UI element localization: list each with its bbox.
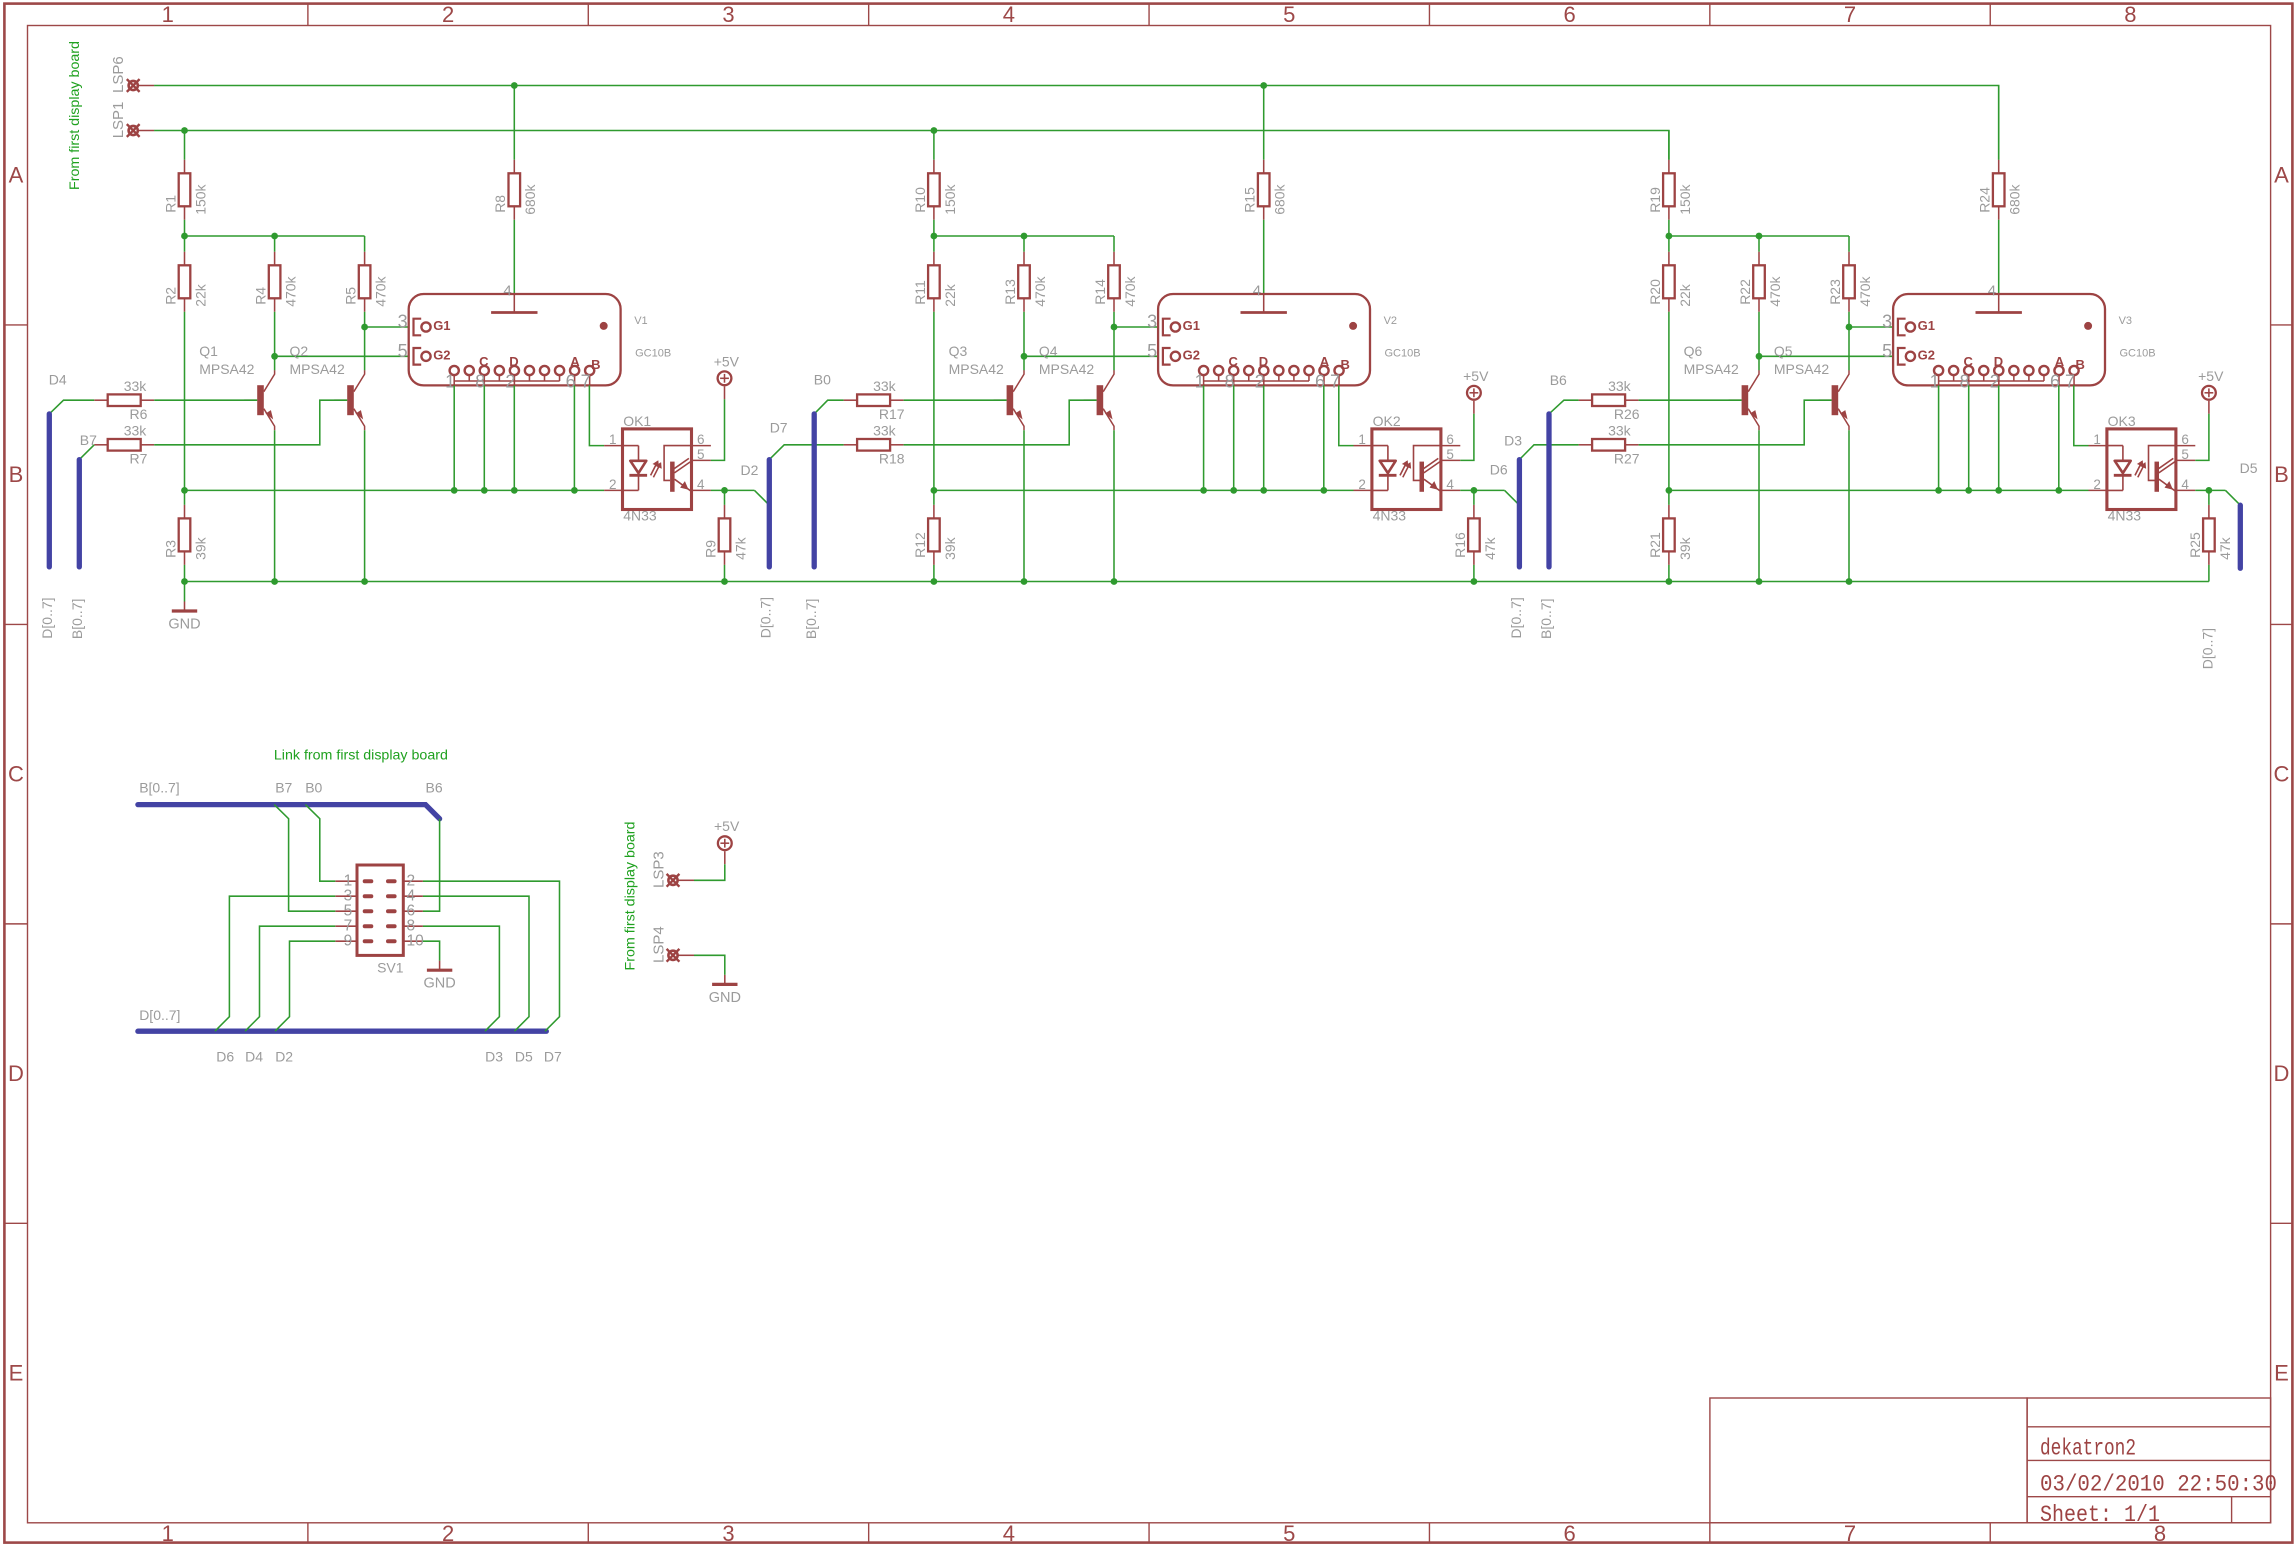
wire R24 column xyxy=(1998,86,2000,160)
svg-text:470k: 470k xyxy=(373,275,389,306)
wire sv1 pin10 to ground xyxy=(423,941,440,961)
connector SV1 xyxy=(335,865,424,975)
resistor R23 470k xyxy=(1827,252,1873,312)
wire net D7 sv1 pin2 xyxy=(423,881,560,1031)
svg-text:39k: 39k xyxy=(1677,536,1693,560)
wire G1 xyxy=(365,326,409,328)
wire R10 column xyxy=(933,131,935,160)
resistor R19 150k xyxy=(1647,160,1693,220)
wire optocoupler pin4 node xyxy=(2195,489,2225,491)
wire tube pin A drop xyxy=(573,385,575,490)
wire tube pin C drop xyxy=(483,385,485,490)
svg-text:B6: B6 xyxy=(426,779,443,795)
wire R12 to bottom rail xyxy=(933,565,935,582)
wire tube pin K drop xyxy=(1938,385,1940,490)
svg-text:D2: D2 xyxy=(275,1049,293,1065)
wire rail to r2 xyxy=(1668,236,1670,252)
junction G2 node xyxy=(271,353,278,360)
wire tube pin D drop xyxy=(1263,385,1265,490)
svg-text:150k: 150k xyxy=(192,183,208,214)
wire tube pin B to optocoupler pin1 xyxy=(1339,385,1354,445)
svg-text:150k: 150k xyxy=(1677,183,1693,214)
junction pin A xyxy=(571,487,578,494)
svg-text:Sheet: 1/1: Sheet: 1/1 xyxy=(2040,1502,2160,1528)
svg-text:D[0..7]: D[0..7] xyxy=(139,1007,180,1023)
wire tube pin A drop xyxy=(2058,385,2060,490)
svg-text:R10: R10 xyxy=(912,187,928,213)
junction pin C xyxy=(1230,487,1237,494)
wire tube pin D drop xyxy=(513,385,515,490)
svg-text:39k: 39k xyxy=(192,536,208,560)
junction bottom rail r9 xyxy=(1471,578,1478,585)
svg-text:Q2: Q2 xyxy=(290,343,309,359)
wire G1 xyxy=(1114,326,1158,328)
svg-text:4N33: 4N33 xyxy=(1373,508,1407,524)
wire pin4 to r9 xyxy=(724,490,726,505)
svg-text:470k: 470k xyxy=(1857,275,1873,306)
wire G2 xyxy=(275,355,409,357)
svg-text:D6: D6 xyxy=(1490,462,1508,478)
wire net D3 sv1 pin8 xyxy=(423,926,500,1031)
junction LSP6/R15 xyxy=(1260,82,1267,89)
svg-text:R6: R6 xyxy=(130,406,148,422)
resistor R1 150k xyxy=(162,160,208,220)
svg-text:OK1: OK1 xyxy=(623,413,651,429)
junction bottom rail B xyxy=(271,578,278,585)
wire net B7 bus entry xyxy=(79,445,94,460)
svg-text:GC10B: GC10B xyxy=(1385,348,1421,360)
svg-text:OK2: OK2 xyxy=(1373,413,1401,429)
wire r1 to rail xyxy=(933,220,935,236)
wire net D6 sv1 pin3 xyxy=(215,896,335,1031)
svg-text:9: 9 xyxy=(344,933,353,950)
svg-text:470k: 470k xyxy=(1032,275,1048,306)
junction pin4 node xyxy=(2206,487,2213,494)
svg-text:R3: R3 xyxy=(162,540,178,558)
svg-text:R9: R9 xyxy=(702,540,718,558)
resistor R4 470k xyxy=(253,252,299,312)
wire G2 xyxy=(1024,355,1158,357)
svg-text:22k: 22k xyxy=(942,283,958,307)
svg-text:1: 1 xyxy=(162,2,174,27)
transistor Q5 MPSA42 xyxy=(1774,343,1849,430)
junction bottom rail A xyxy=(931,578,938,585)
svg-text:V1: V1 xyxy=(634,315,647,327)
resistor R26 33k xyxy=(1579,378,1640,422)
bus B[0..7] sv1 horizontal xyxy=(138,805,440,819)
svg-text:R21: R21 xyxy=(1647,532,1663,558)
junction rail A xyxy=(931,233,938,240)
svg-text:R19: R19 xyxy=(1647,187,1663,213)
svg-text:470k: 470k xyxy=(1122,275,1138,306)
wire tube pin B to optocoupler pin1 xyxy=(2074,385,2089,445)
svg-text:LSP1: LSP1 xyxy=(110,102,127,139)
wire R8 column xyxy=(513,86,515,160)
wire rail to r2 xyxy=(933,236,935,252)
svg-text:4: 4 xyxy=(1003,1521,1015,1545)
svg-text:D5: D5 xyxy=(515,1049,533,1065)
svg-text:33k: 33k xyxy=(124,378,148,394)
wire R17 to Q3 base xyxy=(904,399,1007,401)
wire R7 to Q2 base xyxy=(154,400,347,445)
wire net B6 bus entry xyxy=(1549,400,1579,414)
wire divider rail xyxy=(1669,235,1849,237)
transistor Q4 MPSA42 xyxy=(1039,343,1114,430)
wire rail to r4 xyxy=(1023,236,1025,252)
svg-text:V3: V3 xyxy=(2119,315,2132,327)
svg-text:B7: B7 xyxy=(80,432,97,448)
power +5V xyxy=(714,353,740,399)
wire R20 down xyxy=(1668,312,1670,505)
solder pad LSP3 xyxy=(667,874,694,887)
wire optocoupler pin4 node xyxy=(1460,489,1504,491)
wire R6 to Q1 base xyxy=(154,399,257,401)
svg-text:7: 7 xyxy=(1844,2,1856,27)
svg-text:R7: R7 xyxy=(130,451,148,467)
power +5V xyxy=(2198,368,2224,414)
svg-text:D4: D4 xyxy=(49,371,67,387)
svg-text:B: B xyxy=(2274,462,2289,487)
wire pin4 to r9 xyxy=(2208,490,2210,505)
wire net B0 sv1 pin1 xyxy=(305,805,335,882)
svg-text:D3: D3 xyxy=(485,1049,503,1065)
bus B[0..7] block1 left xyxy=(77,460,82,567)
svg-text:From first display board: From first display board xyxy=(66,41,82,190)
optocoupler OK2 4N33 xyxy=(1354,413,1461,523)
svg-text:B0: B0 xyxy=(305,779,322,795)
junction G2 node xyxy=(1756,353,1763,360)
svg-text:D7: D7 xyxy=(770,420,788,436)
svg-text:D[0..7]: D[0..7] xyxy=(758,597,774,638)
svg-text:D3: D3 xyxy=(1504,432,1522,448)
bus D[0..7] right xyxy=(2238,505,2243,568)
bus D[0..7] mid pair 1 xyxy=(767,460,772,567)
wire rail to r5 xyxy=(364,236,366,252)
resistor R16 47k xyxy=(1452,505,1498,565)
svg-text:MPSA42: MPSA42 xyxy=(949,361,1004,377)
svg-text:3: 3 xyxy=(722,2,734,27)
svg-text:R26: R26 xyxy=(1614,406,1640,422)
junction pin K xyxy=(451,487,458,494)
svg-text:5: 5 xyxy=(1283,2,1295,27)
wire R18 to Q4 base xyxy=(904,400,1097,445)
junction base net xyxy=(1666,487,1673,494)
wire r1 to rail xyxy=(1668,220,1670,236)
wire net D4 bus entry xyxy=(49,400,94,414)
resistor R20 22k xyxy=(1647,252,1693,312)
svg-text:150k: 150k xyxy=(942,183,958,214)
wire net B0 bus entry xyxy=(814,400,843,414)
svg-text:R11: R11 xyxy=(912,280,928,305)
junction bottom rail A xyxy=(1666,578,1673,585)
transistor Q3 MPSA42 xyxy=(949,343,1024,430)
resistor R12 39k xyxy=(912,505,958,565)
svg-text:B7: B7 xyxy=(275,779,292,795)
wire r1 to rail xyxy=(184,220,186,236)
svg-text:R8: R8 xyxy=(492,195,508,213)
junction base net xyxy=(931,487,938,494)
wire net B6 sv1 pin6 xyxy=(423,819,440,912)
svg-text:47k: 47k xyxy=(732,536,748,560)
wire rail to r2 xyxy=(184,236,186,252)
junction rail B xyxy=(271,233,278,240)
wire R26 to Q6 base xyxy=(1639,399,1742,401)
wire tube pin C drop xyxy=(1233,385,1235,490)
svg-text:R20: R20 xyxy=(1647,279,1663,305)
wire +5V to optocoupler pin5 xyxy=(711,399,725,460)
wire LSP3 to +5V xyxy=(694,864,725,880)
svg-text:A: A xyxy=(2274,163,2289,188)
resistor R25 47k xyxy=(2187,505,2233,565)
wire R11 down xyxy=(933,312,935,505)
solder pad LSP4 xyxy=(667,949,694,962)
svg-text:B0: B0 xyxy=(814,371,831,387)
svg-text:R14: R14 xyxy=(1092,279,1108,305)
wire divider rail xyxy=(934,235,1114,237)
transistor Q6 MPSA42 xyxy=(1684,343,1759,430)
bus D[0..7] mid pair 2 xyxy=(1517,460,1522,567)
junction rail A xyxy=(181,233,188,240)
svg-text:C: C xyxy=(2274,762,2290,787)
svg-text:D5: D5 xyxy=(2240,460,2258,476)
wire q1 emitter to bottom rail xyxy=(1023,430,1025,581)
wire r3 rail to ground xyxy=(184,582,186,602)
wire q1 emitter to bottom rail xyxy=(1758,430,1760,581)
wire net D7 bus entry xyxy=(769,445,843,460)
wire tube pin C drop xyxy=(1968,385,1970,490)
wire R1 column xyxy=(184,131,186,160)
resistor R27 33k xyxy=(1579,423,1640,467)
junction pin4 node xyxy=(721,487,728,494)
svg-text:LSP6: LSP6 xyxy=(110,56,127,93)
junction pin A xyxy=(1320,487,1327,494)
svg-text:R25: R25 xyxy=(2187,532,2203,558)
svg-text:R12: R12 xyxy=(912,532,928,558)
wire rail to r4 xyxy=(274,236,276,252)
ground GND lsp4 xyxy=(709,975,741,1006)
wire R15 to tube anode xyxy=(1263,220,1265,294)
svg-text:R15: R15 xyxy=(1242,187,1258,213)
svg-text:4N33: 4N33 xyxy=(623,508,657,524)
svg-text:3: 3 xyxy=(722,1521,734,1545)
ground GND block1 xyxy=(168,602,200,633)
svg-text:R1: R1 xyxy=(162,195,178,213)
svg-text:R18: R18 xyxy=(879,451,905,467)
svg-text:GC10B: GC10B xyxy=(2120,348,2156,360)
resistor R9 47k xyxy=(702,505,748,565)
wire tube pin D drop xyxy=(1998,385,2000,490)
junction pin D xyxy=(1260,487,1267,494)
svg-text:33k: 33k xyxy=(124,423,148,439)
svg-text:680k: 680k xyxy=(2007,183,2023,214)
svg-text:OK3: OK3 xyxy=(2108,413,2136,429)
svg-text:Q5: Q5 xyxy=(1774,343,1793,359)
wire optocoupler pin4 node xyxy=(711,489,755,491)
resistor R13 470k xyxy=(1002,252,1048,312)
junction rail B xyxy=(1756,233,1763,240)
optocoupler OK3 4N33 xyxy=(2089,413,2196,523)
junction rail B xyxy=(1021,233,1028,240)
junction G1 node xyxy=(361,324,368,331)
junction pin C xyxy=(1965,487,1972,494)
svg-text:B[0..7]: B[0..7] xyxy=(139,779,179,795)
wire R23 to G1 node xyxy=(1848,312,1850,371)
svg-text:B: B xyxy=(9,462,24,487)
wire R22 to G2 node xyxy=(1758,312,1760,371)
svg-text:E: E xyxy=(2274,1361,2289,1386)
svg-text:4: 4 xyxy=(1003,2,1015,27)
svg-text:Q4: Q4 xyxy=(1039,343,1058,359)
junction G1 node xyxy=(1846,324,1853,331)
wire R24 to tube anode xyxy=(1998,220,2000,294)
wire R14 to G1 node xyxy=(1113,312,1115,371)
wire +5V to optocoupler pin5 xyxy=(2195,414,2209,461)
svg-text:B[0..7]: B[0..7] xyxy=(1538,599,1554,639)
junction pin A xyxy=(2055,487,2062,494)
wire net D3 bus entry xyxy=(1519,445,1578,460)
junction bottom rail C xyxy=(361,578,368,585)
svg-text:D: D xyxy=(2274,1061,2290,1086)
junction LSP1/R1 xyxy=(181,127,188,134)
wire G1 xyxy=(1849,326,1893,328)
wire q2 emitter to bottom rail xyxy=(1113,430,1115,581)
svg-text:SV1: SV1 xyxy=(377,959,404,975)
svg-text:E: E xyxy=(9,1361,24,1386)
wire R5 to G1 node xyxy=(364,312,366,371)
wire net D5 sv1 pin4 xyxy=(423,896,529,1031)
junction pin K xyxy=(1200,487,1207,494)
svg-text:R5: R5 xyxy=(343,287,359,305)
svg-text:03/02/2010 22:50:30: 03/02/2010 22:50:30 xyxy=(2040,1472,2277,1498)
svg-text:33k: 33k xyxy=(1608,378,1632,394)
junction bottom rail B xyxy=(1021,578,1028,585)
svg-text:A: A xyxy=(9,163,24,188)
junction bottom rail A xyxy=(181,578,188,585)
svg-text:680k: 680k xyxy=(1272,183,1288,214)
svg-text:R24: R24 xyxy=(1977,187,1993,213)
optocoupler OK1 4N33 xyxy=(604,413,711,523)
wire net B7 sv1 pin5 xyxy=(274,805,335,912)
resistor R21 39k xyxy=(1647,505,1693,565)
wire q1 emitter to bottom rail xyxy=(274,430,276,581)
junction pin4 node xyxy=(1471,487,1478,494)
junction bottom rail r9 xyxy=(721,578,728,585)
svg-text:dekatron2: dekatron2 xyxy=(2040,1436,2136,1462)
svg-text:7: 7 xyxy=(1844,1521,1856,1545)
dekatron tube V1 GC10B xyxy=(398,282,671,391)
transistor Q2 MPSA42 xyxy=(290,343,365,430)
svg-text:6: 6 xyxy=(1564,1521,1576,1545)
dekatron tube V3 GC10B xyxy=(1882,282,2155,391)
wire rail to r4 xyxy=(1758,236,1760,252)
svg-text:MPSA42: MPSA42 xyxy=(1039,361,1094,377)
wire R4 to G2 node xyxy=(274,312,276,371)
svg-text:47k: 47k xyxy=(2217,536,2233,560)
svg-text:Q6: Q6 xyxy=(1684,343,1703,359)
resistor R7 33k xyxy=(94,423,154,467)
wire tube pin B to optocoupler pin1 xyxy=(589,385,604,445)
wire R27 to Q5 base xyxy=(1639,400,1832,445)
svg-text:MPSA42: MPSA42 xyxy=(1774,361,1829,377)
svg-text:33k: 33k xyxy=(873,378,897,394)
junction pin C xyxy=(481,487,488,494)
resistor R18 33k xyxy=(844,423,905,467)
svg-text:39k: 39k xyxy=(942,536,958,560)
wire net D2 sv1 pin9 xyxy=(275,941,335,1031)
solder pad LSP6 xyxy=(127,79,154,92)
svg-text:R22: R22 xyxy=(1737,279,1753,305)
svg-text:R4: R4 xyxy=(253,287,269,305)
wire pin4 to r9 xyxy=(1473,490,1475,505)
wire G2 xyxy=(1759,355,1893,357)
svg-text:R17: R17 xyxy=(879,406,905,422)
svg-text:2: 2 xyxy=(442,1521,454,1545)
svg-text:470k: 470k xyxy=(1767,275,1783,306)
wire q2 emitter to bottom rail xyxy=(364,430,366,581)
wire net LSP6 (anode supply) xyxy=(154,86,1999,160)
svg-text:R16: R16 xyxy=(1452,532,1468,558)
svg-text:LSP4: LSP4 xyxy=(650,926,667,963)
svg-text:D[0..7]: D[0..7] xyxy=(2200,628,2216,669)
svg-text:5: 5 xyxy=(1283,1521,1295,1545)
svg-text:LSP3: LSP3 xyxy=(650,851,667,888)
svg-text:D[0..7]: D[0..7] xyxy=(39,597,55,638)
junction G2 node xyxy=(1021,353,1028,360)
svg-text:MPSA42: MPSA42 xyxy=(199,361,254,377)
wire bottom ground rail xyxy=(185,581,2209,583)
svg-text:D4: D4 xyxy=(245,1049,263,1065)
wire q2 emitter to bottom rail xyxy=(1848,430,1850,581)
svg-text:2: 2 xyxy=(442,2,454,27)
svg-text:D2: D2 xyxy=(741,462,759,478)
junction LSP6/R8 xyxy=(511,82,518,89)
svg-text:6: 6 xyxy=(1564,2,1576,27)
svg-text:Link from first display board: Link from first display board xyxy=(274,746,448,762)
svg-text:B6: B6 xyxy=(1550,372,1567,388)
svg-text:680k: 680k xyxy=(522,183,538,214)
wire rail to r5 xyxy=(1848,236,1850,252)
wire R15 column xyxy=(1263,86,1265,160)
svg-text:R27: R27 xyxy=(1614,451,1640,467)
junction pin D xyxy=(511,487,518,494)
svg-text:R2: R2 xyxy=(162,287,178,305)
title block xyxy=(1710,1398,2271,1523)
transistor Q1 MPSA42 xyxy=(199,343,274,430)
svg-text:GC10B: GC10B xyxy=(635,348,671,360)
resistor R8 680k xyxy=(492,160,538,220)
junction bottom rail C xyxy=(1111,578,1118,585)
svg-text:From first display board: From first display board xyxy=(621,822,637,971)
wire cathode common to optocoupler pin2 xyxy=(185,489,605,491)
solder pad LSP1 xyxy=(127,124,154,137)
power +5V xyxy=(1463,368,1489,414)
resistor R15 680k xyxy=(1242,160,1288,220)
resistor R6 33k xyxy=(94,378,154,422)
svg-text:MPSA42: MPSA42 xyxy=(1684,361,1739,377)
svg-text:D: D xyxy=(8,1061,24,1086)
svg-text:D7: D7 xyxy=(544,1049,562,1065)
wire R8 to tube anode xyxy=(513,220,515,294)
wire tube pin K drop xyxy=(453,385,455,490)
dekatron tube V2 GC10B xyxy=(1147,282,1420,391)
bus D[0..7] block1 left xyxy=(47,414,52,567)
svg-text:V2: V2 xyxy=(1384,315,1397,327)
wire net D2 to D bus xyxy=(755,490,770,505)
resistor R10 150k xyxy=(912,160,958,220)
wire R16 to bottom rail xyxy=(1473,565,1475,582)
resistor R24 680k xyxy=(1977,160,2023,220)
bus B[0..7] mid pair 2 xyxy=(1546,414,1551,567)
